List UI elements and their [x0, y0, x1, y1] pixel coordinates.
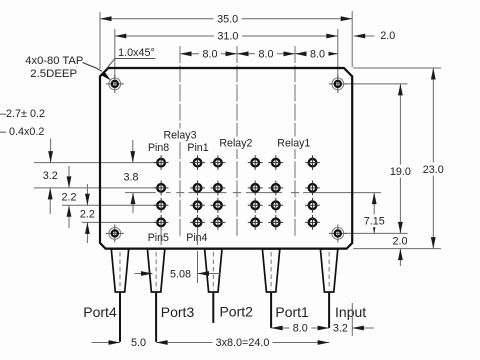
svg-text:1.0x45°: 1.0x45° — [118, 47, 155, 59]
svg-text:2.0: 2.0 — [380, 30, 395, 42]
svg-text:– 0.4x0.2: – 0.4x0.2 — [0, 126, 44, 138]
svg-text:3.2: 3.2 — [43, 170, 58, 182]
svg-text:Pin8: Pin8 — [148, 142, 169, 154]
svg-text:2.5DEEP: 2.5DEEP — [30, 68, 77, 80]
svg-text:Pin1: Pin1 — [187, 142, 208, 154]
svg-text:2.0: 2.0 — [392, 235, 407, 247]
svg-text:Relay2: Relay2 — [219, 138, 252, 150]
svg-text:Port2: Port2 — [219, 304, 253, 320]
svg-text:5.08: 5.08 — [170, 269, 191, 281]
svg-text:35.0: 35.0 — [217, 13, 238, 25]
svg-text:23.0: 23.0 — [423, 164, 444, 176]
svg-text:Pin5: Pin5 — [148, 232, 169, 244]
svg-text:Relay3: Relay3 — [164, 130, 197, 142]
svg-text:8.0: 8.0 — [258, 48, 273, 60]
svg-text:2.2: 2.2 — [61, 191, 76, 203]
svg-text:5.0: 5.0 — [131, 337, 146, 349]
svg-text:31.0: 31.0 — [217, 31, 238, 43]
svg-text:19.0: 19.0 — [390, 166, 411, 178]
svg-text:8.0: 8.0 — [202, 48, 217, 60]
svg-text:Port1: Port1 — [275, 304, 309, 320]
svg-text:Port3: Port3 — [161, 304, 195, 320]
svg-text:2.2: 2.2 — [80, 209, 95, 221]
svg-text:Input: Input — [335, 304, 366, 320]
svg-text:7.15: 7.15 — [364, 216, 385, 228]
svg-text:8.0: 8.0 — [310, 48, 325, 60]
svg-text:Pin4: Pin4 — [186, 232, 207, 244]
svg-text:Port4: Port4 — [83, 304, 117, 320]
svg-text:–2.7± 0.2: –2.7± 0.2 — [0, 108, 45, 120]
svg-text:8.0: 8.0 — [293, 323, 308, 335]
svg-text:3.2: 3.2 — [333, 323, 348, 335]
svg-text:4x0-80 TAP: 4x0-80 TAP — [25, 55, 83, 67]
svg-text:Relay1: Relay1 — [277, 138, 310, 150]
svg-text:3.8: 3.8 — [123, 171, 138, 183]
svg-text:3x8.0=24.0: 3x8.0=24.0 — [216, 337, 270, 349]
